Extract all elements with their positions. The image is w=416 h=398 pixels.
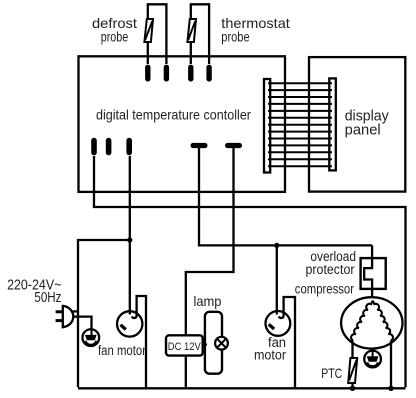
relay terminal 2 — [225, 143, 242, 148]
wire relay terminal1 to overload — [199, 148, 372, 245]
thermostat probe label — [221, 15, 290, 45]
relay terminal 1 — [191, 143, 208, 148]
power plug — [56, 306, 74, 327]
wire fan motor M1 second lead — [137, 296, 146, 388]
wire left rail — [78, 240, 130, 387]
svg-text:fan motor: fan motor — [98, 343, 146, 358]
svg-text:PTC: PTC — [321, 365, 342, 381]
svg-text:protector: protector — [306, 262, 355, 277]
defrost probe label — [92, 15, 137, 45]
wire pin3 to fan motor M1 — [129, 156, 131, 312]
fan motor M2 — [266, 311, 291, 336]
svg-text:probe: probe — [221, 29, 249, 45]
DC 12V adapter — [166, 335, 203, 355]
svg-text:DC 12V: DC 12V — [168, 341, 202, 353]
output pin 2 — [106, 138, 112, 156]
wire compressor right leg to rail — [390, 341, 392, 389]
output pin 1 — [91, 138, 97, 156]
junction right leg rail — [388, 386, 393, 391]
probe input pin 1 — [145, 65, 150, 82]
junction left leg rail — [350, 386, 355, 391]
svg-text:digital temperature contoller: digital temperature contoller — [96, 107, 251, 123]
fan motor M1 — [117, 311, 142, 336]
display panel box — [309, 57, 405, 192]
svg-text:motor: motor — [254, 348, 286, 363]
power plug stub to rail — [73, 310, 78, 312]
wire compressor left leg to rail — [351, 341, 353, 389]
wire pin1 down right to right rail — [94, 156, 406, 387]
DC12V stub — [200, 343, 207, 345]
compressor — [341, 297, 402, 348]
indicator lamp circle — [82, 329, 99, 346]
probe input pin 2 — [164, 65, 169, 82]
connector bar right — [329, 78, 336, 170]
svg-text:probe: probe — [101, 29, 129, 45]
wire bottom rail — [78, 387, 406, 389]
probe input pin 3 — [188, 65, 193, 82]
wire relay terminal2 to DC12V and rail — [186, 148, 234, 388]
controller box — [79, 56, 286, 192]
thermostat probe — [187, 4, 209, 64]
svg-text:50Hz: 50Hz — [34, 290, 61, 306]
svg-text:compressor: compressor — [295, 281, 354, 297]
overload protector label — [306, 249, 357, 277]
svg-text:panel: panel — [345, 123, 381, 139]
junction to fan motor M2 — [274, 243, 279, 248]
fan motor M2 label — [254, 335, 286, 363]
overload protector — [361, 245, 386, 298]
junction pin3-left rail — [127, 237, 132, 242]
start relay circle — [364, 351, 381, 368]
PTC — [348, 358, 357, 383]
svg-text:lamp: lamp — [194, 293, 222, 309]
lamp fixture — [205, 312, 222, 374]
lamp symbol — [215, 337, 228, 350]
ribbon cable — [268, 83, 332, 166]
power label — [7, 277, 61, 306]
wire junction down to fan motor M2 — [276, 245, 278, 312]
probe input pin 4 — [206, 65, 211, 82]
output pin 3 — [126, 138, 132, 156]
wire fan motor M2 second lead — [284, 297, 295, 388]
defrost probe — [144, 4, 166, 64]
power plug branch to indicator — [74, 317, 92, 330]
display panel label — [345, 108, 390, 138]
connector bar left — [264, 79, 270, 173]
